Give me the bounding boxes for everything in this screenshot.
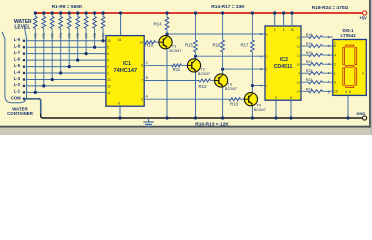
svg-text:BC547: BC547	[169, 48, 182, 53]
svg-text:R18-R24 = 470Ω: R18-R24 = 470Ω	[312, 5, 349, 11]
svg-text:14: 14	[297, 90, 301, 94]
svg-text:16: 16	[290, 28, 294, 32]
svg-text:BC547: BC547	[198, 71, 211, 76]
svg-text:L-7: L-7	[14, 50, 21, 55]
svg-text:R1-R9 = 560K: R1-R9 = 560K	[52, 4, 83, 10]
svg-text:3: 3	[274, 28, 276, 32]
svg-text:12: 12	[107, 84, 111, 88]
svg-text:g: g	[328, 89, 330, 93]
svg-text:R5: R5	[67, 33, 71, 37]
svg-text:R8: R8	[93, 33, 97, 37]
svg-text:10: 10	[107, 39, 111, 43]
svg-text:L-8: L-8	[14, 44, 21, 49]
svg-text:9: 9	[141, 97, 143, 101]
svg-text:a: a	[328, 35, 330, 39]
svg-text:IC1: IC1	[123, 61, 131, 67]
svg-text:3: 3	[107, 59, 109, 63]
svg-text:L-4: L-4	[14, 69, 21, 74]
svg-text:5: 5	[107, 46, 109, 50]
svg-text:B: B	[260, 67, 262, 71]
svg-text:R16: R16	[213, 42, 221, 47]
svg-text:B: B	[146, 76, 148, 80]
svg-text:R4: R4	[59, 33, 63, 37]
svg-text:4: 4	[283, 28, 285, 32]
svg-text:f: f	[328, 80, 329, 84]
svg-text:R24: R24	[306, 87, 313, 91]
svg-text:1: 1	[334, 71, 336, 75]
svg-text:10: 10	[297, 63, 301, 67]
svg-text:R6: R6	[76, 33, 80, 37]
svg-text:4: 4	[334, 53, 336, 57]
svg-text:2: 2	[334, 62, 336, 66]
svg-text:R3: R3	[50, 33, 54, 37]
svg-text:R11: R11	[173, 67, 181, 72]
svg-text:16: 16	[118, 38, 122, 42]
svg-text:R15: R15	[185, 42, 193, 47]
svg-text:R13: R13	[230, 102, 238, 107]
svg-text:R12: R12	[199, 84, 207, 89]
svg-text:D: D	[362, 72, 364, 76]
svg-text:14: 14	[139, 40, 143, 44]
svg-text:d: d	[328, 62, 330, 66]
svg-text:5: 5	[275, 96, 277, 100]
svg-text:LTS543: LTS543	[341, 33, 357, 38]
svg-text:BC547: BC547	[254, 107, 267, 112]
svg-text:1: 1	[107, 71, 109, 75]
svg-text:15: 15	[297, 81, 301, 85]
svg-text:BC547: BC547	[225, 86, 238, 91]
svg-text:9: 9	[334, 81, 336, 85]
svg-text:L-5: L-5	[14, 63, 21, 68]
svg-text:b: b	[328, 44, 330, 48]
svg-text:7: 7	[141, 79, 143, 83]
svg-text:R20: R20	[306, 51, 313, 55]
svg-text:2: 2	[107, 65, 109, 69]
svg-text:R19: R19	[306, 42, 313, 46]
svg-text:+5V: +5V	[359, 16, 367, 21]
svg-text:R14-R17 = 33K: R14-R17 = 33K	[211, 4, 245, 10]
svg-text:COM: COM	[11, 96, 21, 101]
svg-text:R18: R18	[306, 33, 313, 37]
svg-text:LEVEL: LEVEL	[14, 24, 30, 30]
svg-text:8: 8	[290, 96, 292, 100]
svg-text:e: e	[328, 71, 330, 75]
svg-text:13: 13	[107, 78, 111, 82]
svg-text:R9: R9	[101, 33, 105, 37]
svg-text:13: 13	[297, 35, 301, 39]
svg-text:R22: R22	[306, 69, 313, 73]
svg-text:L-3: L-3	[14, 76, 21, 81]
svg-text:CD4511: CD4511	[274, 64, 293, 70]
svg-text:R10: R10	[145, 43, 153, 48]
svg-text:A: A	[260, 84, 262, 88]
svg-text:12: 12	[297, 44, 301, 48]
svg-text:11: 11	[107, 91, 111, 95]
svg-text:8: 8	[118, 101, 120, 105]
svg-text:L-2: L-2	[14, 82, 21, 87]
svg-text:R14: R14	[154, 22, 162, 27]
svg-text:10: 10	[334, 90, 338, 94]
svg-text:R21: R21	[306, 60, 313, 64]
svg-text:R10-R13 = 12K: R10-R13 = 12K	[195, 121, 229, 127]
svg-text:R17: R17	[241, 42, 249, 47]
svg-text:6: 6	[141, 64, 143, 68]
svg-text:4: 4	[107, 52, 109, 56]
svg-text:R23: R23	[306, 78, 313, 82]
svg-text:CONTAINER: CONTAINER	[7, 111, 34, 116]
svg-text:L-9: L-9	[14, 37, 21, 42]
svg-text:R1: R1	[34, 33, 38, 37]
svg-text:11: 11	[297, 53, 300, 57]
svg-text:3, 8: 3, 8	[345, 90, 351, 94]
svg-text:6: 6	[334, 44, 336, 48]
svg-text:R2: R2	[42, 33, 46, 37]
svg-text:L-6: L-6	[14, 56, 21, 61]
svg-text:R7: R7	[84, 33, 88, 37]
svg-text:IC2: IC2	[280, 57, 288, 63]
svg-text:GND: GND	[356, 111, 365, 116]
svg-text:L-1: L-1	[14, 89, 21, 94]
svg-text:74HC147: 74HC147	[113, 68, 137, 74]
